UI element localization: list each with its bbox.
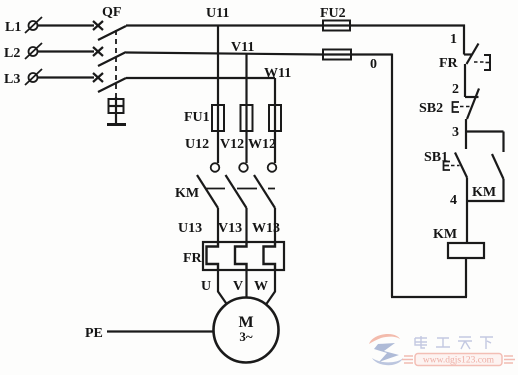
watermark logo swirl [369, 334, 403, 365]
svg-text:3: 3 [452, 125, 459, 140]
motor M [214, 298, 279, 363]
thermal relay FR box [203, 242, 284, 270]
FR heater element V [235, 242, 247, 270]
svg-text:SB2: SB2 [419, 101, 443, 116]
wire V13 [245, 208, 247, 242]
svg-text:U12: U12 [185, 137, 209, 152]
FR heater element U [207, 242, 219, 270]
circuit breaker QF pole 3 [93, 73, 126, 92]
svg-text:V12: V12 [220, 137, 244, 152]
svg-text:PE: PE [85, 326, 103, 341]
circuit breaker QF pole 1 [93, 21, 126, 40]
terminal L2 [29, 47, 38, 56]
contactor KM main contact U [197, 163, 219, 208]
wire row1 FU2 to right rail [350, 24, 465, 26]
wire right rail top [463, 25, 465, 55]
pushbutton SB1 (NO start) [444, 132, 468, 178]
svg-text:2: 2 [452, 82, 459, 97]
wire U to motor [218, 270, 227, 305]
wire W13 [274, 208, 276, 242]
node U11 / wire down [217, 26, 219, 106]
svg-text:W12: W12 [248, 137, 276, 152]
wire row1 QF to FU2 [126, 24, 323, 26]
wire U12 to KM contact [217, 131, 219, 163]
svg-text:W13: W13 [252, 221, 280, 236]
wire 0 rail down [391, 54, 393, 298]
terminal L3 [29, 73, 38, 82]
svg-text:W: W [254, 279, 268, 294]
svg-text:L2: L2 [4, 46, 20, 61]
QF trip release box [107, 97, 126, 125]
svg-text:V: V [233, 279, 243, 294]
fuse FU2 upper [323, 21, 350, 31]
contactor KM main contact V [226, 163, 248, 208]
wire node2-3 [465, 119, 467, 132]
fuse FU1 phase W [269, 105, 281, 131]
wire coil to bottom [465, 258, 467, 297]
svg-text:FR: FR [439, 56, 459, 71]
svg-text:U11: U11 [206, 6, 229, 21]
wire W to motor [266, 270, 275, 305]
wire bottom rail [391, 296, 467, 298]
svg-text:KM: KM [472, 185, 496, 200]
QF linkage dashed line [115, 30, 117, 97]
FR heater element W [264, 242, 276, 270]
wire node 4 [466, 178, 468, 244]
wire row2 QF to FU2 [126, 53, 323, 55]
wire U13 [217, 208, 219, 242]
node W11 / wire down [274, 78, 276, 105]
svg-text:QF: QF [102, 5, 121, 20]
contactor coil KM [448, 243, 484, 258]
svg-text:3~: 3~ [239, 329, 253, 344]
svg-text:W11: W11 [264, 66, 291, 81]
watermark banner www.dgjs123.com [402, 354, 515, 366]
svg-text:V13: V13 [218, 221, 242, 236]
pushbutton SB2 (NC stop) [453, 89, 480, 120]
svg-text:V11: V11 [231, 40, 254, 55]
wire V to motor [245, 270, 247, 298]
contactor KM auxiliary contact [467, 132, 504, 202]
svg-text:SB1: SB1 [424, 150, 448, 165]
wire V12 to KM contact [245, 131, 247, 163]
wire row2 FU2 to node 0 [351, 53, 392, 55]
wire node3 branch to KM aux [466, 130, 504, 132]
wire node1-2 [464, 64, 466, 97]
contactor KM main contact W [254, 163, 276, 208]
wire L1 to QF [38, 24, 95, 26]
svg-text:L1: L1 [5, 20, 21, 35]
svg-text:KM: KM [175, 186, 199, 201]
svg-text:4: 4 [450, 193, 457, 208]
KM linkage dashed line [206, 188, 275, 190]
wire W12 to KM contact [274, 131, 276, 163]
terminal L1 [29, 21, 38, 30]
svg-text:FR: FR [183, 251, 203, 266]
fuse FU2 lower [323, 50, 351, 60]
svg-text:0: 0 [370, 57, 377, 72]
svg-text:FU1: FU1 [184, 110, 210, 125]
svg-text:KM: KM [433, 227, 457, 242]
svg-text:FU2: FU2 [320, 6, 346, 21]
thermal relay FR NC contact [464, 44, 490, 71]
svg-text:L3: L3 [4, 72, 20, 87]
fuse FU1 phase U [212, 105, 224, 131]
svg-text:www.dgjs123.com: www.dgjs123.com [423, 356, 495, 366]
fuse FU1 phase V [241, 105, 253, 131]
wire L2 to QF [38, 50, 95, 52]
wire L3 to QF [38, 76, 95, 78]
svg-text:1: 1 [450, 32, 457, 47]
node V11 / wire down [245, 54, 247, 106]
circuit breaker QF pole 2 [93, 47, 126, 66]
svg-text:U: U [201, 279, 211, 294]
watermark text 电工天下 [415, 336, 493, 349]
wire row3 QF to W11 corner [126, 77, 275, 79]
svg-text:U13: U13 [178, 221, 202, 236]
wire PE to motor [107, 330, 214, 332]
